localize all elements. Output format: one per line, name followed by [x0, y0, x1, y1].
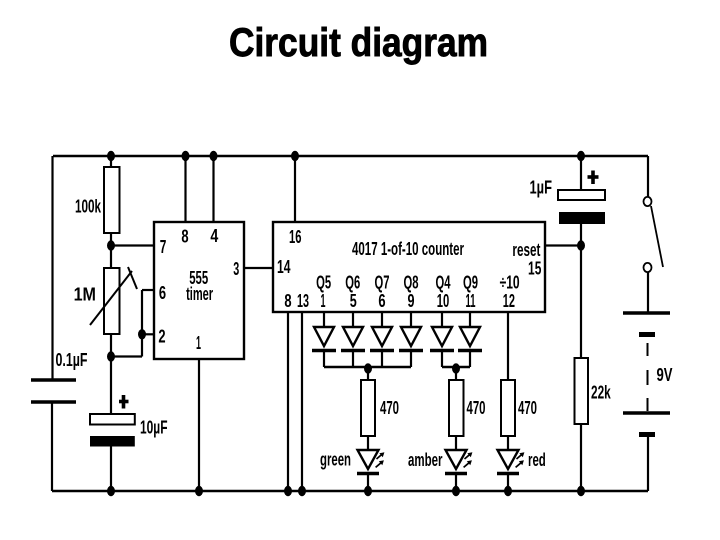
wire 4017 pin16 to rail	[294, 156, 296, 222]
wire 4017 pin8 to ground	[287, 312, 289, 491]
svg-text:Q6: Q6	[345, 273, 360, 293]
capacitor 10uF electrolytic	[90, 395, 168, 447]
svg-text:16: 16	[289, 227, 302, 247]
node junction pin2	[138, 329, 146, 339]
wire rail to 1uF	[580, 156, 582, 190]
svg-text:1µF: 1µF	[530, 178, 553, 198]
node junction bus2	[452, 363, 460, 373]
node junction 1uF/rail	[577, 151, 585, 161]
wire bus diodes D1-D4	[324, 366, 411, 368]
wire bus1 to 470 resistor	[367, 368, 369, 380]
node junction pin7 branch	[107, 240, 115, 250]
svg-text:10: 10	[437, 291, 450, 311]
wire 4017 pin13 to ground	[301, 312, 303, 491]
wire 555 pin 1 to ground	[198, 359, 200, 491]
wire reset pin15 stub	[545, 244, 581, 246]
LED red	[497, 450, 546, 474]
wire 555 pin 8 to rail	[184, 156, 186, 222]
node junction 22k/ground	[577, 486, 585, 496]
resistor 470 (amber)	[449, 380, 486, 436]
wire 555 pin 4 to rail	[212, 156, 214, 222]
svg-text:1: 1	[196, 333, 201, 353]
resistor 100k	[75, 167, 120, 233]
wire amber LED to ground	[455, 475, 457, 491]
svg-text:22k: 22k	[591, 383, 611, 403]
resistor 1M (variable)	[74, 267, 137, 334]
wire 470 to amber LED	[455, 436, 457, 451]
node junction pin8/rail	[182, 151, 190, 161]
svg-text:12: 12	[503, 291, 515, 311]
node junction pin4/rail	[210, 151, 218, 161]
wire 1uF to reset node	[580, 224, 582, 245]
svg-text:1: 1	[321, 291, 326, 311]
node junction amber/ground	[452, 486, 460, 496]
node junction 10uF/ground	[107, 486, 115, 496]
node junction green/ground	[364, 486, 372, 496]
switch S1	[644, 197, 664, 272]
svg-text:timer: timer	[186, 284, 213, 304]
svg-text:470: 470	[518, 398, 537, 418]
diode D4 (pin 9)	[399, 312, 423, 367]
node junction red/ground	[504, 486, 512, 496]
svg-text:0.1µF: 0.1µF	[56, 350, 88, 370]
wire 100k to 1M	[110, 233, 112, 268]
wire battery to ground rail	[647, 436, 649, 491]
wire 470 to green LED	[367, 436, 369, 451]
svg-text:470: 470	[467, 398, 486, 418]
wire red LED to ground	[507, 475, 509, 491]
svg-text:9V: 9V	[657, 365, 673, 385]
svg-text:1M: 1M	[74, 285, 96, 305]
svg-text:11: 11	[466, 291, 476, 311]
U2 4017 1-of-10 counter box	[273, 222, 545, 312]
svg-text:÷10: ÷10	[500, 273, 520, 293]
switch S1 wire from rail	[647, 156, 649, 197]
wire rail to 100k	[110, 156, 112, 168]
svg-text:4: 4	[210, 226, 218, 246]
wire 22k to ground	[580, 424, 582, 491]
diode D6 (pin 11)	[458, 312, 482, 367]
svg-text:Circuit diagram: Circuit diagram	[229, 21, 488, 65]
svg-text:6: 6	[159, 283, 166, 303]
svg-text:15: 15	[528, 259, 541, 279]
resistor 470 (green)	[361, 380, 399, 436]
svg-text:Q4: Q4	[436, 273, 451, 293]
diode D3 (pin 6)	[370, 312, 394, 367]
node junction 4017 pin8/ground	[284, 486, 292, 496]
svg-text:6: 6	[378, 291, 385, 311]
svg-text:7: 7	[160, 237, 167, 257]
diode D5 (pin 10)	[430, 312, 454, 367]
node junction 1M/pin2 wire	[107, 351, 115, 361]
capacitor 0.1uF	[31, 350, 88, 402]
wire 1M bottom to 10uF	[110, 334, 112, 414]
svg-text:Q5: Q5	[316, 273, 331, 293]
svg-text:red: red	[528, 450, 546, 470]
wire bus diodes D5-D6	[442, 366, 470, 368]
wire reset node to 22k	[580, 245, 582, 358]
svg-text:14: 14	[277, 257, 291, 277]
capacitor 1uF electrolytic	[530, 171, 606, 225]
wire bottom ground rail	[52, 490, 648, 493]
resistor 470 (red)	[501, 380, 537, 436]
node junction reset	[577, 240, 585, 250]
wire 4017 pin12 to 470 resistor	[507, 312, 509, 380]
svg-text:10µF: 10µF	[140, 418, 168, 438]
wire bus2 to 470 resistor	[455, 368, 457, 380]
wire junction to pin2/6 riser	[111, 355, 142, 357]
svg-text:green: green	[320, 450, 351, 470]
wire riser pin6 to junction	[141, 290, 143, 357]
node junction bus1	[364, 363, 372, 373]
diode D2 (pin 5)	[341, 312, 365, 367]
svg-text:100k: 100k	[75, 197, 102, 217]
op-amp U1 555 timer box	[154, 222, 244, 359]
svg-text:Q8: Q8	[404, 273, 419, 293]
wire green LED to ground	[367, 475, 369, 491]
wire top supply rail	[53, 155, 648, 158]
wire left vertical from rail to 0.1uF	[51, 156, 53, 380]
svg-text:3: 3	[233, 259, 239, 279]
svg-text:Q7: Q7	[375, 273, 390, 293]
wire to 555 pin 7	[111, 244, 154, 246]
node junction rail/100k	[107, 151, 115, 161]
svg-text:Q9: Q9	[463, 273, 478, 293]
node junction 4017 pin13/ground	[298, 486, 306, 496]
resistor 22k	[575, 358, 612, 424]
wire 0.1uF bottom to ground rail	[51, 402, 53, 491]
svg-text:9: 9	[408, 291, 415, 311]
wire stub 555 pin 6	[142, 289, 154, 291]
svg-text:amber: amber	[408, 450, 443, 470]
battery 9V	[623, 313, 673, 435]
svg-text:8: 8	[284, 291, 291, 311]
svg-text:5: 5	[350, 291, 357, 311]
wire stub 555 pin 2	[142, 333, 154, 335]
svg-text:2: 2	[158, 327, 165, 347]
svg-text:4017 1-of-10 counter: 4017 1-of-10 counter	[352, 239, 464, 259]
wire 555 pin3 to 4017 pin14	[244, 267, 273, 269]
svg-text:13: 13	[297, 291, 309, 311]
wire 470 to red LED	[507, 436, 509, 451]
diode D1 (pin 1)	[312, 312, 336, 367]
svg-text:470: 470	[380, 398, 399, 418]
node junction pin16/rail	[291, 151, 299, 161]
wire switch to battery	[647, 272, 649, 312]
svg-text:8: 8	[181, 227, 188, 247]
LED amber	[408, 450, 472, 474]
LED green	[320, 450, 384, 474]
node junction pin1/ground	[195, 486, 203, 496]
wire 10uF to ground rail	[110, 446, 112, 491]
svg-text:reset: reset	[512, 240, 540, 260]
